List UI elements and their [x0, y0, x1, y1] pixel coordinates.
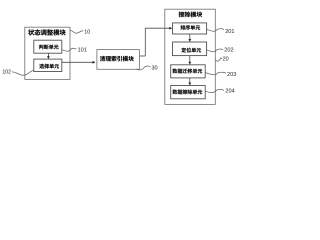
svg-text:20: 20: [223, 57, 229, 63]
wire up segment: [144, 28, 146, 56]
wire arrow 101 to 102: [47, 53, 49, 57]
module box 20 擦除模块 outline: [165, 9, 216, 104]
title 状态调整模块: [28, 29, 65, 35]
svg-text:203: 203: [227, 72, 236, 78]
leader line to label 201: [207, 29, 224, 32]
unit box 201 排序单元: [173, 23, 207, 34]
wire arrow 201 to 202: [189, 34, 191, 40]
svg-text:204: 204: [225, 89, 234, 95]
wire arrow into 排序单元: [145, 27, 170, 29]
text 排序单元: [180, 25, 200, 30]
leader line to label 20: [216, 58, 223, 61]
wire from module 30 right edge: [139, 55, 145, 57]
svg-text:30: 30: [151, 66, 157, 72]
unit box 101 判断单元: [34, 40, 62, 53]
text 定位单元: [181, 48, 201, 53]
leader line to label 204: [205, 89, 224, 92]
text 判断单元: [39, 45, 59, 50]
text 选择单元: [39, 64, 59, 69]
title 擦除模块: [179, 12, 202, 18]
svg-text:10: 10: [84, 30, 90, 36]
unit box 202 定位单元: [173, 42, 207, 56]
text 数据擦除单元: [173, 89, 203, 94]
module box 30 清理索引模块: [97, 50, 139, 70]
unit box 203 数据迁移单元: [171, 65, 206, 78]
leader line to label 102: [12, 71, 34, 76]
svg-text:201: 201: [225, 29, 234, 35]
wire arrow 102 to module 30: [62, 61, 94, 63]
module box 10 状态调整模块 outline: [25, 27, 70, 79]
wire arrow 203 to 204: [189, 78, 191, 83]
leader line to label 10: [70, 30, 83, 33]
leader line to label 203: [205, 72, 226, 74]
unit box 204 数据擦除单元: [171, 86, 206, 99]
wire arrow 202 to 203: [189, 56, 191, 63]
leader line to label 202: [207, 49, 223, 52]
leader line to label 30: [136, 66, 151, 70]
leader line to label 101: [62, 48, 76, 51]
title 清理索引模块: [100, 56, 134, 61]
svg-text:202: 202: [224, 48, 233, 54]
text 数据迁移单元: [173, 69, 203, 74]
svg-text:102: 102: [2, 70, 11, 76]
svg-text:101: 101: [78, 47, 87, 53]
unit box 102 选择单元: [34, 59, 62, 71]
